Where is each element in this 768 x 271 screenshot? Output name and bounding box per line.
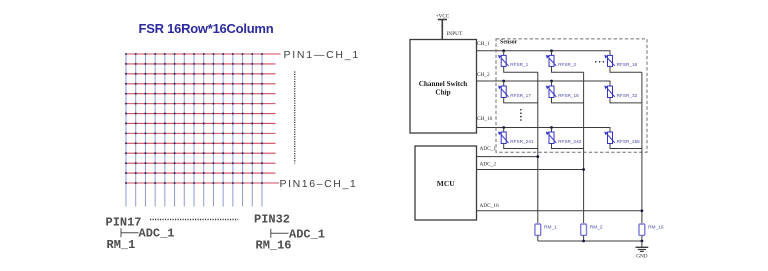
- svg-text:RFSR_17: RFSR_17: [510, 93, 531, 98]
- node ADC_2 junction: [582, 168, 585, 171]
- resistor RFSR_242: [546, 126, 584, 148]
- svg-text:Sensor: Sensor: [500, 40, 518, 46]
- svg-text:RFSR_18: RFSR_18: [558, 93, 579, 98]
- wire matrix row 1: [126, 53, 281, 55]
- wire column 1: [537, 72, 539, 223]
- svg-text:RM_1: RM_1: [107, 238, 136, 252]
- svg-text:CH_2: CH_2: [477, 72, 490, 78]
- resistor RFSR_16: [604, 51, 642, 73]
- power +VCC: [436, 13, 450, 19]
- svg-text:ADC_1: ADC_1: [480, 146, 497, 152]
- svg-text:ADC_2: ADC_2: [480, 162, 497, 168]
- resistor RFSR_17: [498, 80, 538, 103]
- wire matrix row 6: [126, 103, 276, 105]
- horizontal dotted ellipsis line: [150, 219, 238, 221]
- svg-text:GND: GND: [636, 254, 647, 260]
- wire CH_1 row: [477, 51, 611, 56]
- svg-text:RFSR_1: RFSR_1: [510, 62, 528, 67]
- svg-text:PIN16–CH_1: PIN16–CH_1: [280, 178, 358, 190]
- svg-text:RM_16: RM_16: [256, 239, 292, 253]
- resistor RFSR_241: [498, 126, 538, 148]
- wire matrix row 3: [126, 73, 276, 75]
- svg-text:RFSR_32: RFSR_32: [617, 93, 638, 98]
- Sensor dashed box: [496, 39, 647, 152]
- wire VCC input: [441, 20, 443, 40]
- svg-text:INPUT: INPUT: [447, 31, 464, 37]
- svg-text:Chip: Chip: [435, 88, 450, 96]
- wire matrix column 5: [164, 54, 166, 207]
- svg-text:ADC_1: ADC_1: [289, 227, 325, 241]
- wire ADC_16: [477, 210, 642, 212]
- wire matrix column 13: [242, 54, 244, 207]
- wire matrix column 9: [203, 54, 205, 207]
- U1 Channel Switch Chip: [410, 40, 477, 134]
- resistor RM_2: [581, 224, 603, 241]
- svg-text:CH_16: CH_16: [477, 116, 493, 122]
- U2 MCU: [415, 146, 477, 220]
- wire ground bus: [538, 240, 642, 242]
- svg-text:RM_2: RM_2: [590, 225, 603, 231]
- wire matrix row 9: [126, 132, 276, 134]
- ADC_1 tap symbol right: [271, 229, 289, 238]
- wire matrix column 1: [125, 54, 127, 207]
- wire ADC_1: [477, 156, 538, 158]
- node RM_16 ground bus: [641, 240, 644, 243]
- wire matrix row 11: [126, 152, 276, 154]
- svg-text:RFSR_2: RFSR_2: [558, 62, 576, 67]
- wire matrix row 12: [126, 162, 276, 164]
- svg-text:ADC_16: ADC_16: [480, 203, 499, 209]
- wire matrix row 8: [126, 122, 276, 124]
- ellipsis row 1: [595, 61, 604, 63]
- ground GND: [636, 241, 649, 260]
- svg-text:CH_1: CH_1: [477, 41, 490, 47]
- svg-text:ADC_1: ADC_1: [139, 227, 175, 241]
- wire matrix row 14: [126, 182, 279, 184]
- vertical ellipsis sensor: [520, 109, 522, 121]
- node ADC_16 junction: [641, 209, 644, 212]
- wire matrix column 11: [222, 54, 224, 207]
- svg-text:Channel Switch: Channel Switch: [419, 80, 468, 88]
- svg-text:RFSR_241: RFSR_241: [510, 139, 534, 144]
- wire matrix column 10: [212, 54, 214, 207]
- wire matrix row 7: [126, 113, 276, 115]
- svg-text:RM_16: RM_16: [648, 225, 664, 231]
- wire matrix column 8: [193, 54, 195, 207]
- wire matrix column 12: [232, 54, 234, 207]
- wire matrix column 7: [183, 54, 185, 207]
- wire CH_16 row: [477, 128, 611, 133]
- wire column 2: [583, 72, 585, 223]
- node ADC_1 junction: [536, 155, 539, 158]
- matrix junction dots: [125, 53, 263, 184]
- resistor RFSR_2: [546, 49, 584, 72]
- resistor RFSR_18: [546, 80, 584, 103]
- wire matrix column 4: [154, 54, 156, 207]
- svg-text:PIN32: PIN32: [254, 213, 290, 227]
- resistor RM_1: [535, 224, 557, 241]
- svg-text:MCU: MCU: [437, 179, 455, 188]
- resistor RFSR_32: [604, 81, 642, 103]
- wire matrix row 4: [126, 83, 276, 85]
- wire matrix row 5: [126, 93, 276, 95]
- wire matrix row 10: [126, 142, 276, 144]
- svg-text:PIN17: PIN17: [106, 215, 142, 229]
- wire CH_2 row: [477, 81, 611, 86]
- wire matrix column 3: [144, 54, 146, 207]
- wire ADC_2: [477, 169, 584, 171]
- resistor RM_16: [639, 224, 664, 241]
- resistor RFSR_1: [498, 49, 538, 72]
- ADC_1 tap symbol left: [121, 228, 139, 237]
- wire matrix column 14: [251, 54, 253, 207]
- resistor RFSR_256: [604, 128, 642, 149]
- svg-text:PIN1—CH_1: PIN1—CH_1: [284, 49, 360, 61]
- wire column 3: [641, 72, 643, 223]
- node RM_2 ground bus: [582, 240, 585, 243]
- wire matrix row 13: [126, 172, 276, 174]
- svg-text:FSR 16Row*16Column: FSR 16Row*16Column: [139, 21, 274, 36]
- wire matrix column 6: [174, 54, 176, 207]
- vertical dotted ellipsis line: [294, 72, 296, 164]
- svg-text:RFSR_16: RFSR_16: [617, 62, 638, 67]
- svg-text:RFSR_242: RFSR_242: [558, 139, 582, 144]
- wire matrix column 15: [261, 54, 263, 207]
- wire matrix column 2: [135, 54, 137, 207]
- svg-text:+VCC: +VCC: [436, 13, 450, 19]
- svg-text:RFSR_256: RFSR_256: [617, 139, 641, 144]
- svg-text:RM_1: RM_1: [544, 225, 557, 231]
- wire matrix row 2: [126, 63, 276, 65]
